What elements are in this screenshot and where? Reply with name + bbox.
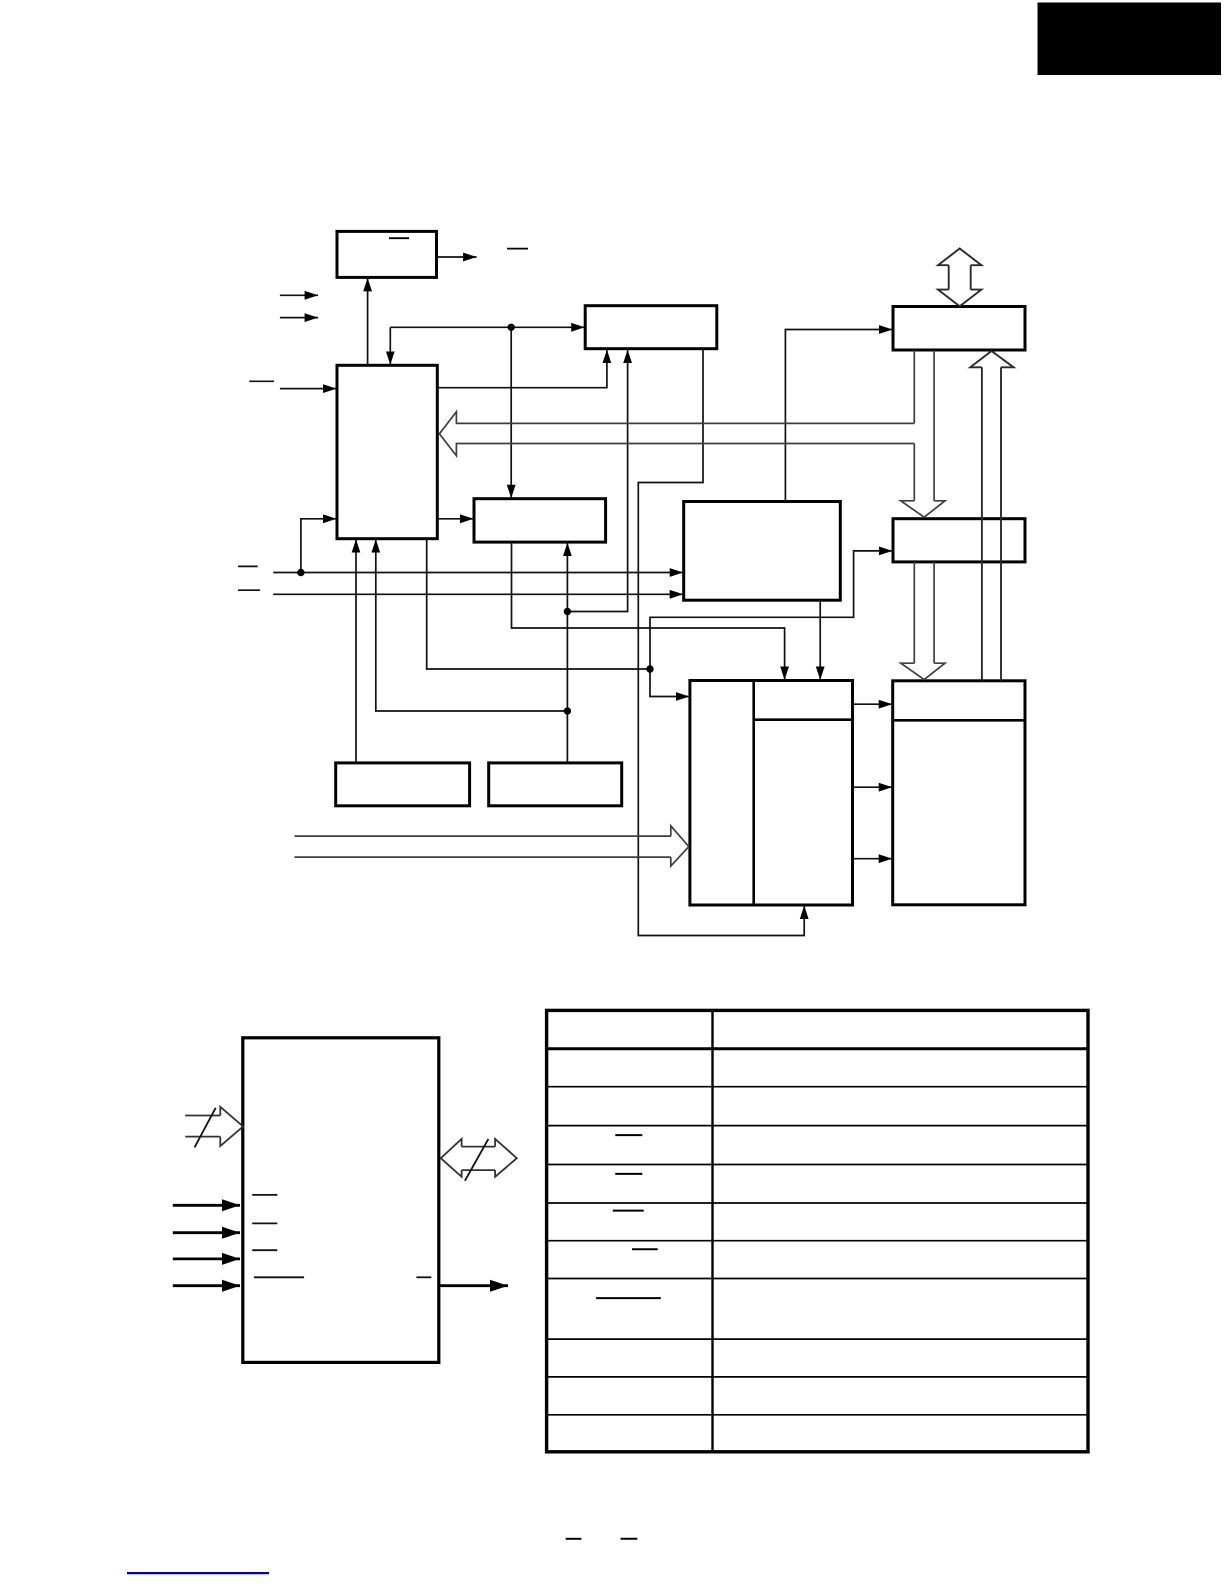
junction node on H1 [297,569,304,576]
wire B6 top to B4 left [785,330,892,502]
wire H1 bus into B6 left [273,572,683,574]
black header bar [1038,3,1222,76]
wire net327 horizontal into B3 [390,326,584,328]
footer blue underline [127,1572,269,1574]
wire B8 to B9 arrow 1 [853,703,893,705]
hollow bus branch to big left arrow [439,412,914,456]
box B6 (center block) [684,502,841,601]
wire bus branch up into B2 left [301,519,337,573]
box B1 (top small block) [337,231,437,277]
hollow bus B4 down to B7 (shaft) [914,350,934,501]
table overline row7 [632,1248,658,1250]
bold input arrow 2 [173,1231,240,1234]
junction node at wire cross 650,669 [646,665,653,672]
bold input arrow 4 [173,1284,240,1287]
hollow bidirectional arrow above B4 [938,249,981,307]
box B7 (mid right block) [893,519,1025,562]
pin overline 2 inside B12 [252,1222,277,1224]
wire branch from V8 up into B2 bottom [376,539,568,711]
pin overline 4 inside B12 (long) [254,1276,304,1278]
bold input arrow 3 [173,1258,240,1261]
table row line 2 [547,1086,1088,1088]
wire input arrow 2 [280,317,318,319]
wire B11 up into B5 bottom (V8) [566,543,568,763]
wire branch from V8 to B3 bottom [567,350,627,612]
divider of B9 (horizontal) [893,719,1025,722]
hollow bus B7 down to B9 (shaft) [914,562,934,663]
wire B6 bottom to B8 top [819,600,821,680]
wire B5 bottom to B8 top [512,542,785,680]
junction node on net327 [508,324,515,331]
wire B1 output arrow [437,256,477,258]
table row line 3 [547,1125,1088,1127]
table row line 10 [547,1414,1088,1416]
table overline row6 [613,1210,644,1212]
bold output arrow [439,1284,508,1287]
junction node on V8 upper [564,608,571,615]
overline label right of B1 arrow [507,248,528,250]
slash on bidirectional bus [465,1139,489,1181]
table overline row5 [615,1173,642,1175]
overline label for H1 [238,565,258,567]
pin overline 1 inside B12 [252,1194,277,1196]
table row line 8 [547,1338,1088,1340]
overline label inside B1 [389,237,409,239]
box B2 (tall block) [337,365,437,538]
hollow bus arrowhead into B4 bottom [970,351,1013,367]
box B9 (bottom right block) [893,681,1025,905]
hollow bus arrowhead into B9 top [901,663,945,679]
wire junction to B8 left [650,669,689,697]
table overline row4 [615,1134,642,1136]
box B8 (bottom center block) [690,681,853,906]
table row line 7 [547,1278,1088,1280]
table row line 6 [547,1240,1088,1242]
page number dash right [621,1538,638,1540]
box B3 (top middle block) [585,306,717,349]
wire H2 bus into B6 left [273,593,683,595]
table header separator [547,1047,1088,1050]
wire net327 down into B5 top [510,327,512,498]
hollow bidirectional arrow right of B12 [441,1139,517,1177]
wire B2 to B1 (up arrow) [367,278,369,365]
divider of B8 (vertical) [752,681,755,906]
wire B8 to B9 arrow 3 [853,858,893,860]
box B11 (small block right) [489,763,622,806]
wire B2 right to B5 left [438,518,474,520]
big hollow right arrow (head) [671,826,689,866]
wire input arrow into B2 left [280,388,337,390]
table overline row8 (long) [596,1297,661,1299]
junction node on V8 lower [564,707,571,714]
box B4 (top right block) [893,307,1025,351]
bold input arrow 1 [173,1204,240,1207]
table row line 5 [547,1202,1088,1204]
wire junction to B7 left [650,551,893,669]
box B12 (lower-left large block) [243,1038,439,1363]
wire B10 up into B2 bottom [355,539,357,763]
slash on input bus [195,1108,216,1148]
hollow bus B9 up to B4 (shaft) [982,367,1001,681]
page number dash left [566,1538,582,1540]
table row line 9 [547,1376,1088,1378]
wire net327 down into B2 top [389,327,391,365]
wire B2 right to B3 bottom [438,350,607,388]
table column divider [711,1010,713,1451]
overline label left of B2 input [249,380,274,382]
table row line 4 [547,1164,1088,1166]
wire B2 bottom to junction dot [427,539,650,669]
divider of B8 (horizontal, right part) [754,718,853,721]
table outer border [547,1010,1088,1451]
hollow bus arrow into B12 left [185,1107,243,1146]
wire B3 bottom to B8 bottom [638,349,804,936]
box B10 (small block left) [336,763,470,806]
big hollow right arrow (shaft) [295,836,671,857]
box B5 (register block) [474,499,606,542]
wire B8 to B9 arrow 2 [853,786,893,788]
pin overline 3 inside B12 [252,1249,277,1251]
pin overline right side B12 [416,1276,431,1278]
hollow bus arrowhead into B7 top [901,501,945,517]
wire input arrow 1 [280,294,318,296]
overline label for H2 [238,589,260,591]
